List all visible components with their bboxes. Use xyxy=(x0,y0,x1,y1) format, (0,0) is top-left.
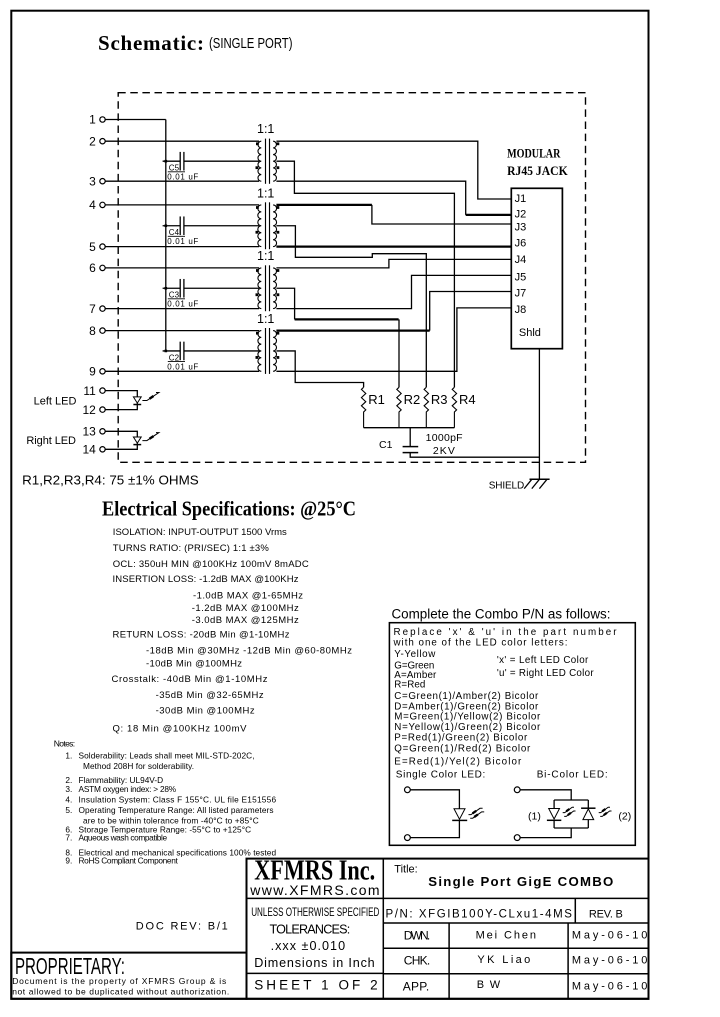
svg-text:2: 2 xyxy=(89,134,96,148)
svg-text:Schematic:: Schematic: xyxy=(98,31,204,55)
svg-text:Document is the property of XF: Document is the property of XFMRS Group … xyxy=(12,976,226,986)
svg-text:RETURN LOSS: -20dB Min @1-10MH: RETURN LOSS: -20dB Min @1-10MHz xyxy=(113,629,290,640)
svg-text:-3.0dB MAX @125MHz: -3.0dB MAX @125MHz xyxy=(192,615,299,626)
svg-text:C=Green(1)/Amber(2) Bicolor: C=Green(1)/Amber(2) Bicolor xyxy=(394,691,539,702)
svg-text:Single Port GigE COMBO: Single Port GigE COMBO xyxy=(428,874,613,889)
svg-text:5: 5 xyxy=(89,240,96,254)
svg-text:R3: R3 xyxy=(431,392,448,407)
svg-text:Complete the Combo P/N as foll: Complete the Combo P/N as follows: xyxy=(392,606,611,621)
svg-text:SHIELD: SHIELD xyxy=(489,480,525,491)
svg-text:Title:: Title: xyxy=(394,864,417,876)
svg-text:INSERTION LOSS: -1.2dB MAX @10: INSERTION LOSS: -1.2dB MAX @100KHz xyxy=(113,574,299,585)
svg-text:ISOLATION: INPUT-OUTPUT 1500 V: ISOLATION: INPUT-OUTPUT 1500 Vrms xyxy=(113,527,287,538)
svg-text:0.01 uF: 0.01 uF xyxy=(167,237,198,246)
svg-text:Aqueous wash compatible: Aqueous wash compatible xyxy=(79,833,168,843)
svg-text:C4: C4 xyxy=(169,228,180,237)
svg-text:Notes:: Notes: xyxy=(54,738,75,748)
svg-text:May-06-10: May-06-10 xyxy=(572,981,648,993)
svg-text:May-06-10: May-06-10 xyxy=(572,955,648,967)
svg-text:9: 9 xyxy=(89,365,96,379)
svg-text:TOLERANCES:: TOLERANCES: xyxy=(270,922,351,936)
svg-text:MODULAR: MODULAR xyxy=(507,146,561,160)
svg-text:-1.0dB MAX @1-65MHz: -1.0dB MAX @1-65MHz xyxy=(193,591,303,602)
svg-text:RJ45 JACK: RJ45 JACK xyxy=(507,164,568,178)
svg-text:1:1: 1:1 xyxy=(257,312,274,326)
svg-text:Operating Temperature Range: A: Operating Temperature Range: All listed … xyxy=(79,805,274,815)
svg-text:with one of the LED color lett: with one of the LED color letters: xyxy=(393,638,568,649)
svg-text:Insulation System: Class F 155: Insulation System: Class F 155°C. UL fil… xyxy=(79,795,277,805)
svg-text:Electrical Specifications: @25: Electrical Specifications: @25°C xyxy=(102,497,356,521)
svg-text:.xxx ±0.010: .xxx ±0.010 xyxy=(271,939,346,953)
svg-text:4: 4 xyxy=(89,198,96,212)
svg-text:Replace 'x' & 'u' in the part: Replace 'x' & 'u' in the part number xyxy=(394,627,618,638)
svg-text:14: 14 xyxy=(82,443,96,457)
svg-text:(SINGLE PORT): (SINGLE PORT) xyxy=(209,35,293,52)
svg-text:C5: C5 xyxy=(169,164,180,173)
svg-text:Method 208H for solderability.: Method 208H for solderability. xyxy=(83,761,194,771)
svg-text:12: 12 xyxy=(82,403,96,417)
svg-text:-30dB Min @100MHz: -30dB Min @100MHz xyxy=(156,705,255,716)
svg-text:REV. B: REV. B xyxy=(589,908,623,920)
svg-text:1000pF: 1000pF xyxy=(426,432,463,444)
svg-text:C3: C3 xyxy=(169,291,180,300)
svg-text:YK Liao: YK Liao xyxy=(477,954,530,966)
svg-text:-18dB Min @30MHz -12dB Min @60: -18dB Min @30MHz -12dB Min @60-80MHz xyxy=(146,646,352,657)
svg-text:UNLESS OTHERWISE SPECIFIED: UNLESS OTHERWISE SPECIFIED xyxy=(251,905,379,919)
svg-text:0.01 uF: 0.01 uF xyxy=(167,173,198,182)
svg-text:Single Color LED:: Single Color LED: xyxy=(396,770,486,781)
svg-text:N=Yellow(1)/Green(2) Bicolor: N=Yellow(1)/Green(2) Bicolor xyxy=(394,722,541,733)
svg-text:BW: BW xyxy=(477,979,501,991)
svg-text:SHEET 1 OF 2: SHEET 1 OF 2 xyxy=(254,978,378,993)
svg-text:1.: 1. xyxy=(65,751,72,761)
svg-text:J3: J3 xyxy=(515,221,527,233)
svg-text:J5: J5 xyxy=(515,271,527,283)
svg-text:-35dB Min @32-65MHz: -35dB Min @32-65MHz xyxy=(156,690,264,701)
svg-text:7.: 7. xyxy=(65,833,72,843)
svg-text:DOC REV: B/1: DOC REV: B/1 xyxy=(136,920,228,932)
svg-text:C1: C1 xyxy=(379,439,393,451)
svg-text:8: 8 xyxy=(89,324,96,338)
svg-text:9.: 9. xyxy=(65,856,72,866)
svg-text:ASTM oxygen index: > 28%: ASTM oxygen index: > 28% xyxy=(79,784,177,794)
svg-text:E=Red(1)/Yel(2) Bicolor: E=Red(1)/Yel(2) Bicolor xyxy=(394,757,522,768)
svg-text:www.XFMRS.com: www.XFMRS.com xyxy=(249,882,379,898)
svg-text:1:1: 1:1 xyxy=(257,249,274,263)
svg-text:Shld: Shld xyxy=(519,327,541,339)
svg-text:P=Red(1)/Green(2) Bicolor: P=Red(1)/Green(2) Bicolor xyxy=(394,733,528,744)
svg-text:CHK.: CHK. xyxy=(404,954,430,968)
svg-text:Mei Chen: Mei Chen xyxy=(476,930,536,942)
svg-text:DWN.: DWN. xyxy=(404,929,430,943)
svg-text:-1.2dB MAX @100MHz: -1.2dB MAX @100MHz xyxy=(192,603,299,614)
svg-text:Q=Green(1)/Red(2) Bicolor: Q=Green(1)/Red(2) Bicolor xyxy=(394,744,531,755)
svg-text:13: 13 xyxy=(82,425,96,439)
svg-text:OCL: 350uH MIN @100KHz 100mV 8: OCL: 350uH MIN @100KHz 100mV 8mADC xyxy=(113,559,309,570)
svg-text:R2: R2 xyxy=(404,392,421,407)
svg-text:TURNS RATIO: (PRI/SEC) 1:1 ±3%: TURNS RATIO: (PRI/SEC) 1:1 ±3% xyxy=(113,543,270,554)
svg-text:Left LED: Left LED xyxy=(34,396,77,408)
svg-text:(2): (2) xyxy=(618,810,631,822)
svg-text:Bi-Color LED:: Bi-Color LED: xyxy=(537,770,608,781)
svg-text:Y-Yellow: Y-Yellow xyxy=(394,649,436,660)
svg-text:Q: 18 Min @100KHz 100mV: Q: 18 Min @100KHz 100mV xyxy=(113,723,248,734)
svg-text:(1): (1) xyxy=(528,810,541,822)
svg-text:May-06-10: May-06-10 xyxy=(572,930,648,942)
svg-text:2KV: 2KV xyxy=(433,445,455,457)
svg-text:3: 3 xyxy=(89,174,96,188)
svg-text:not allowed to be duplicated w: not allowed to be duplicated without aut… xyxy=(12,986,229,996)
svg-text:R=Red: R=Red xyxy=(394,680,425,691)
svg-text:1:1: 1:1 xyxy=(257,122,274,136)
svg-text:R4: R4 xyxy=(459,392,476,407)
svg-text:J7: J7 xyxy=(515,288,527,300)
svg-text:Dimensions in Inch: Dimensions in Inch xyxy=(254,956,375,970)
svg-text:6: 6 xyxy=(89,261,96,275)
svg-text:J8: J8 xyxy=(515,304,527,316)
svg-text:1: 1 xyxy=(89,113,96,127)
svg-text:R1: R1 xyxy=(368,392,385,407)
svg-text:1:1: 1:1 xyxy=(257,187,274,201)
svg-text:P/N: XFGIB100Y-CLxu1-4MS: P/N: XFGIB100Y-CLxu1-4MS xyxy=(386,909,573,921)
svg-text:J2: J2 xyxy=(515,209,527,221)
svg-text:3.: 3. xyxy=(65,784,72,794)
svg-text:'x' = Left LED Color: 'x' = Left LED Color xyxy=(497,655,589,666)
svg-text:Right LED: Right LED xyxy=(26,435,76,447)
svg-text:0.01 uF: 0.01 uF xyxy=(167,362,198,371)
svg-text:0.01 uF: 0.01 uF xyxy=(167,300,198,309)
svg-text:J4: J4 xyxy=(515,254,527,266)
svg-text:RoHS Compliant Component: RoHS Compliant Component xyxy=(79,856,179,866)
svg-text:11: 11 xyxy=(83,384,96,398)
svg-text:7: 7 xyxy=(89,302,96,316)
svg-text:'u' = Right LED Color: 'u' = Right LED Color xyxy=(497,668,594,679)
svg-text:APP.: APP. xyxy=(403,979,429,993)
svg-text:J1: J1 xyxy=(515,193,527,205)
svg-text:C2: C2 xyxy=(169,353,180,362)
svg-text:-10dB Min @100MHz: -10dB Min @100MHz xyxy=(146,658,242,669)
svg-text:J6: J6 xyxy=(515,238,527,250)
svg-text:5.: 5. xyxy=(65,805,72,815)
svg-text:4.: 4. xyxy=(65,795,72,805)
svg-text:Crosstalk: -40dB Min @1-10MHz: Crosstalk: -40dB Min @1-10MHz xyxy=(112,674,268,685)
svg-text:R1,R2,R3,R4: 75 ±1% OHMS: R1,R2,R3,R4: 75 ±1% OHMS xyxy=(22,473,199,488)
svg-text:Solderability: Leads shall mee: Solderability: Leads shall meet MIL-STD-… xyxy=(79,751,255,761)
